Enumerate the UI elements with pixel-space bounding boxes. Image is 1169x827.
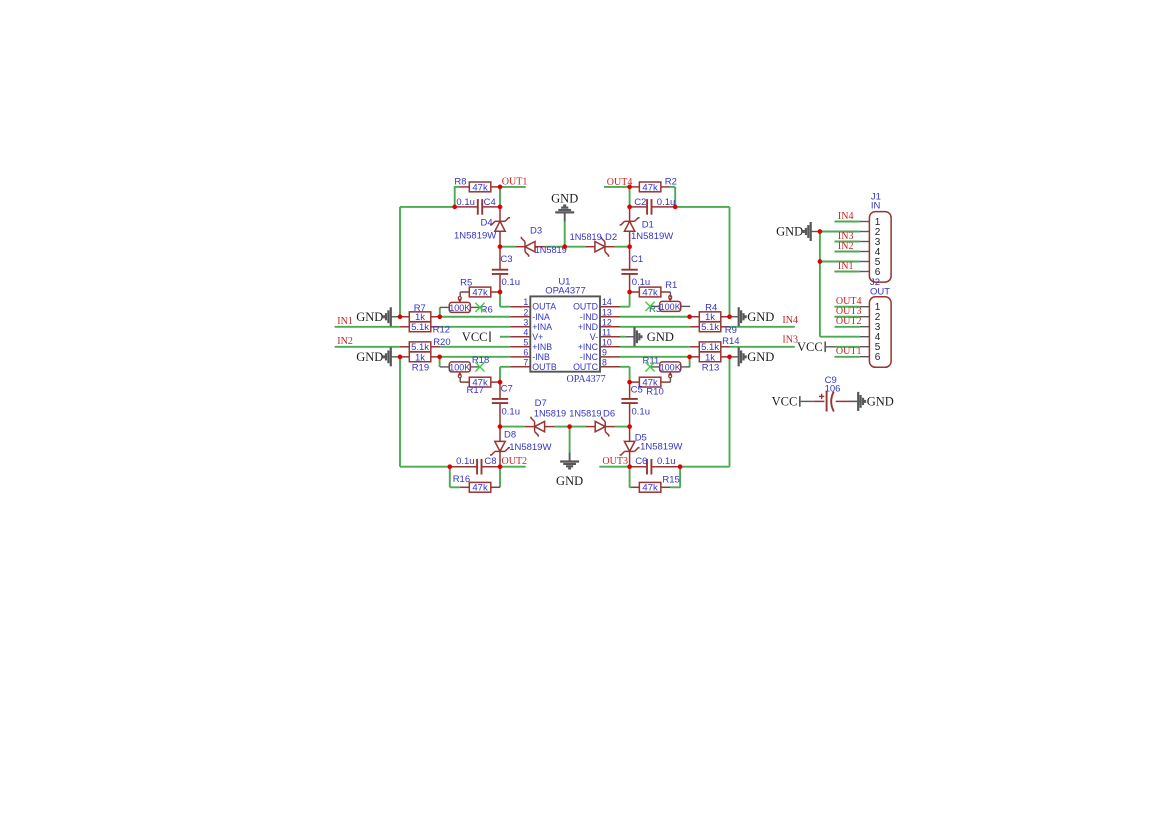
wire [500, 336, 510, 338]
svg-text:+INA: +INA [532, 322, 552, 332]
svg-text:IN2: IN2 [838, 241, 854, 252]
wire OUT4 stub [604, 186, 630, 188]
svg-text:47k: 47k [472, 483, 488, 494]
wire [600, 346, 620, 348]
resistor R9 [699, 322, 737, 336]
wire [651, 466, 680, 468]
diode D2 [595, 237, 609, 257]
wire IN3 [730, 346, 795, 348]
junction [627, 290, 632, 295]
wire [615, 246, 630, 248]
wire [629, 367, 631, 382]
resistor R13 [699, 352, 721, 374]
wire J1 IN1 [835, 271, 860, 273]
junction [398, 314, 403, 319]
svg-text:R10: R10 [646, 386, 663, 397]
svg-text:9: 9 [602, 347, 607, 357]
wire [400, 326, 410, 328]
wire [491, 381, 500, 383]
junction [562, 244, 567, 249]
svg-text:V-: V- [590, 332, 598, 342]
wire [670, 186, 675, 188]
svg-text:+INB: +INB [532, 342, 552, 352]
wire [510, 356, 530, 358]
svg-text:C1: C1 [631, 254, 643, 265]
svg-text:C2: C2 [634, 197, 646, 208]
svg-text:R16: R16 [453, 474, 470, 485]
wire [545, 246, 565, 248]
wire [629, 403, 631, 426]
wire [630, 466, 647, 468]
svg-text:D6: D6 [603, 409, 615, 420]
wire [629, 382, 631, 399]
junction [727, 355, 732, 360]
wire [679, 467, 681, 488]
svg-text:2: 2 [523, 307, 528, 317]
svg-text:D8: D8 [504, 430, 516, 441]
wire [629, 247, 631, 270]
svg-text:100K: 100K [660, 362, 681, 372]
wire [431, 326, 440, 328]
svg-text:6: 6 [875, 352, 881, 363]
wire [631, 486, 640, 488]
junction [567, 424, 572, 429]
wire J2 OUT3 [835, 316, 860, 318]
wire [499, 247, 501, 270]
svg-text:1N5819W: 1N5819W [631, 231, 673, 242]
svg-text:R15: R15 [662, 474, 679, 485]
svg-text:D7: D7 [535, 398, 547, 409]
svg-text:OPA4377: OPA4377 [567, 374, 606, 385]
svg-text:OUTA: OUTA [532, 302, 556, 312]
wire [460, 486, 470, 488]
svg-text:5: 5 [523, 337, 528, 347]
ground [730, 307, 775, 326]
capacitor C3 [492, 270, 508, 274]
svg-text:4: 4 [523, 327, 528, 337]
junction [498, 205, 503, 210]
svg-text:GND: GND [867, 395, 894, 409]
capacitor C7 [492, 399, 508, 403]
wire [544, 426, 554, 428]
svg-text:OPA4377: OPA4377 [545, 286, 586, 297]
wire gnd stem [564, 222, 566, 247]
resistor R10 [639, 377, 663, 397]
wire [499, 427, 501, 442]
potentiometer R11 [643, 356, 691, 378]
wire [860, 251, 870, 253]
svg-text:OUTD: OUTD [573, 302, 598, 312]
wire [629, 274, 631, 292]
svg-text:-INC: -INC [580, 352, 599, 362]
wire [620, 356, 690, 358]
capacitor C1 [621, 270, 637, 274]
junction [687, 355, 692, 360]
wire feedback B [399, 357, 401, 467]
junction [627, 424, 632, 429]
wire [510, 316, 530, 318]
op-amp U1 OPA4377 [523, 277, 611, 385]
potentiometer R3 [645, 296, 690, 315]
svg-text:VCC: VCC [797, 340, 823, 354]
wire [860, 271, 870, 273]
wire [801, 400, 814, 402]
wire [605, 246, 615, 248]
wire [669, 292, 671, 297]
wire [669, 377, 671, 382]
wire [555, 426, 570, 428]
svg-text:R4: R4 [705, 302, 717, 313]
svg-text:R7: R7 [414, 303, 426, 314]
svg-text:C3: C3 [500, 254, 512, 265]
wire [615, 426, 630, 428]
connector J1 IN [869, 191, 891, 282]
wire [400, 356, 409, 358]
wire [450, 486, 460, 488]
svg-text:D1: D1 [642, 219, 654, 230]
svg-text:1N5819: 1N5819 [569, 409, 601, 419]
svg-text:10: 10 [602, 337, 612, 347]
wire feedback A [399, 207, 401, 317]
wire [510, 346, 530, 348]
resistor R5 [460, 277, 491, 298]
wire [721, 346, 730, 348]
wire [586, 426, 596, 428]
wire J1 gnd [820, 231, 860, 233]
junction [627, 380, 632, 385]
svg-text:11: 11 [602, 327, 611, 337]
svg-text:C5: C5 [631, 384, 643, 395]
wire [491, 486, 500, 488]
svg-text:R12: R12 [433, 324, 450, 335]
wire [630, 206, 648, 208]
svg-text:V+: V+ [532, 332, 543, 342]
wire [826, 346, 836, 348]
svg-text:OUTB: OUTB [532, 362, 557, 372]
resistor R14 [699, 336, 739, 353]
power VCC [462, 330, 490, 344]
svg-text:1N5819: 1N5819 [534, 409, 566, 419]
resistor R7 [409, 303, 431, 323]
wire [499, 187, 501, 207]
wire gnd stem bottom [569, 427, 571, 453]
capacitor C9 polarized [819, 375, 841, 412]
svg-text:GND: GND [776, 225, 803, 239]
wire pot R18 drop [439, 357, 441, 367]
wire OUT1 stub [500, 186, 526, 188]
wire [600, 306, 620, 308]
svg-text:OUTC: OUTC [573, 362, 599, 372]
junction [818, 229, 823, 234]
wire [499, 232, 501, 247]
junction [447, 464, 452, 469]
diode D5 [620, 441, 640, 455]
svg-text:14: 14 [602, 297, 612, 307]
wire [814, 400, 825, 402]
resistor R4 [699, 302, 721, 323]
svg-text:1N5819W: 1N5819W [640, 442, 682, 453]
wire [400, 466, 450, 468]
wire IN2 [335, 346, 400, 348]
wire [629, 427, 631, 442]
wire [629, 292, 631, 307]
wire [629, 232, 631, 247]
svg-text:GND: GND [556, 474, 583, 488]
svg-text:13: 13 [602, 307, 612, 317]
wire [499, 367, 501, 382]
wire [510, 306, 530, 308]
svg-text:R9: R9 [725, 325, 737, 336]
wire [500, 366, 510, 368]
svg-text:OUT2: OUT2 [502, 456, 528, 467]
svg-text:GND: GND [356, 310, 383, 324]
diode D1 [620, 218, 640, 232]
potentiometer R18 [440, 355, 489, 378]
wire [620, 306, 630, 308]
svg-text:6: 6 [523, 347, 528, 357]
wire [491, 186, 500, 188]
svg-text:OUT2: OUT2 [836, 316, 862, 327]
wire J1 pin5 [820, 261, 860, 263]
svg-text:1k: 1k [705, 352, 715, 363]
wire OUT3 stub [599, 466, 629, 468]
wire [629, 187, 631, 207]
svg-text:0.1u: 0.1u [632, 407, 651, 418]
svg-text:C6: C6 [635, 456, 647, 467]
ground [556, 452, 583, 488]
wire [630, 486, 631, 488]
wire [674, 187, 676, 207]
resistor R16 [453, 474, 491, 494]
svg-text:D3: D3 [530, 225, 542, 236]
wire [690, 356, 700, 358]
svg-text:0.1u: 0.1u [456, 456, 475, 467]
wire [629, 467, 631, 488]
wire [481, 466, 500, 468]
wire [500, 426, 525, 428]
svg-text:OUT1: OUT1 [502, 177, 528, 188]
wire [860, 306, 870, 308]
wire [525, 426, 535, 428]
junction [627, 205, 632, 210]
svg-text:D4: D4 [481, 217, 493, 228]
svg-text:R13: R13 [702, 363, 719, 374]
wire [400, 206, 455, 208]
wire [680, 466, 729, 468]
svg-text:IN1: IN1 [337, 316, 353, 327]
svg-text:R19: R19 [412, 363, 429, 374]
wire [661, 291, 671, 293]
wire [600, 316, 620, 318]
wire [459, 292, 461, 297]
wire J2 pin4 [820, 336, 860, 338]
wire [499, 403, 501, 426]
wire [620, 316, 690, 318]
svg-text:100K: 100K [449, 303, 470, 313]
capacitor C4 [478, 199, 482, 215]
wire [499, 452, 501, 467]
svg-text:-IND: -IND [580, 312, 598, 322]
wire [860, 326, 870, 328]
wire [455, 186, 460, 188]
svg-text:OUT: OUT [870, 286, 890, 297]
wire [630, 186, 640, 188]
junction [437, 314, 442, 319]
junction [678, 464, 683, 469]
resistor R8 [454, 176, 490, 193]
svg-text:R5: R5 [460, 277, 472, 288]
diode D6 [595, 417, 609, 437]
resistor R17 [467, 377, 491, 396]
wire [860, 221, 870, 223]
ground [356, 347, 400, 366]
wire [460, 381, 469, 383]
wire [630, 381, 640, 383]
svg-text:5.1k: 5.1k [701, 322, 719, 333]
wire [600, 326, 620, 328]
wire feedback D [729, 207, 731, 317]
svg-text:OUT4: OUT4 [607, 177, 633, 188]
wire [460, 291, 469, 293]
svg-text:1k: 1k [415, 352, 425, 363]
ground [625, 327, 674, 346]
ground [356, 307, 400, 326]
wire J1 IN4 [835, 221, 860, 223]
svg-text:IN2: IN2 [337, 336, 353, 347]
svg-text:47k: 47k [472, 182, 488, 193]
svg-text:R20: R20 [433, 337, 450, 348]
wire [620, 326, 690, 328]
wire [535, 246, 545, 248]
resistor R2 [639, 176, 677, 193]
wire [482, 206, 500, 208]
wire [499, 274, 501, 292]
svg-text:1: 1 [523, 297, 528, 307]
svg-text:C4: C4 [484, 197, 496, 208]
svg-text:1N5819W: 1N5819W [509, 442, 551, 453]
wire [629, 452, 631, 467]
wire [690, 346, 699, 348]
wire [849, 400, 860, 402]
wire [440, 356, 511, 358]
wire [431, 316, 440, 318]
junction [673, 205, 678, 210]
svg-text:1N5819: 1N5819 [570, 232, 602, 242]
diode D3 [521, 237, 535, 257]
svg-text:-INA: -INA [532, 312, 550, 322]
wire IN1 [335, 326, 400, 328]
svg-text:+INC: +INC [578, 342, 599, 352]
wire [670, 486, 680, 488]
wire J2 OUT2 [835, 326, 860, 328]
wire [629, 207, 631, 221]
power VCC [772, 395, 800, 409]
svg-text:GND: GND [356, 350, 383, 364]
wire [652, 206, 676, 208]
svg-text:IN4: IN4 [782, 315, 798, 326]
ground [849, 392, 894, 411]
wire IN4 [730, 326, 795, 328]
capacitor C8 [477, 459, 481, 475]
wire [500, 306, 510, 308]
svg-text:100K: 100K [660, 302, 681, 312]
svg-text:R18: R18 [472, 355, 489, 366]
junction [398, 355, 403, 360]
svg-text:1N5819: 1N5819 [535, 245, 567, 255]
wire [450, 466, 477, 468]
wire [661, 486, 671, 488]
svg-text:D2: D2 [605, 232, 617, 243]
wire [860, 316, 870, 318]
svg-text:GND: GND [747, 350, 774, 364]
wire J2 VCC [836, 346, 860, 348]
wire [620, 366, 630, 368]
wire [454, 186, 456, 207]
resistor R20 [409, 337, 450, 353]
junction [498, 380, 503, 385]
wire [455, 206, 478, 208]
svg-text:0.1u: 0.1u [657, 197, 676, 208]
svg-text:0.1u: 0.1u [456, 197, 475, 208]
diode D8 [490, 441, 510, 455]
junction [627, 464, 632, 469]
wire [400, 316, 409, 318]
svg-text:R1: R1 [665, 280, 677, 291]
wire feedback C [729, 357, 731, 467]
svg-text:R17: R17 [467, 385, 484, 396]
wire [661, 186, 670, 188]
wire [836, 400, 849, 402]
wire [440, 316, 511, 318]
wire [449, 467, 451, 488]
wire [630, 291, 640, 293]
svg-text:IN3: IN3 [782, 334, 798, 345]
wire [431, 356, 440, 358]
wire [860, 231, 870, 233]
wire [510, 336, 530, 338]
wire J2 OUT4 [835, 306, 860, 308]
ground [551, 192, 578, 222]
svg-text:C8: C8 [484, 456, 496, 467]
svg-text:C7: C7 [501, 383, 513, 394]
svg-text:0.1u: 0.1u [657, 456, 676, 467]
diode D7 [531, 417, 545, 437]
wire OUT2 stub [500, 466, 526, 468]
wire [860, 261, 870, 263]
junction [687, 314, 692, 319]
wire [499, 207, 501, 221]
wire [431, 346, 440, 348]
svg-text:R2: R2 [665, 176, 677, 187]
wire [400, 346, 410, 348]
wire pot R11 drop [689, 357, 691, 367]
wire [510, 326, 530, 328]
wire [491, 291, 500, 293]
svg-text:OUT3: OUT3 [602, 456, 628, 467]
wire [605, 426, 615, 428]
wire [499, 467, 501, 488]
wire [500, 246, 515, 248]
wire [690, 326, 699, 328]
ground [730, 347, 775, 366]
junction [498, 424, 503, 429]
junction [727, 314, 732, 319]
capacitor C6 [647, 459, 651, 475]
wire [440, 346, 510, 348]
svg-text:IN: IN [871, 201, 881, 212]
resistor R19 [409, 352, 431, 374]
junction [437, 355, 442, 360]
